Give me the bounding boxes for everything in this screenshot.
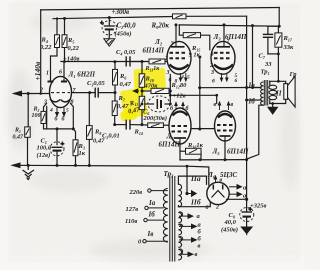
wire: C4 left	[125, 61, 127, 63]
svg-text:100,0: 100,0	[37, 145, 52, 152]
capacitor C8 electrolytic	[240, 207, 254, 222]
svg-text:5Ц3С: 5Ц3С	[220, 171, 237, 179]
svg-text:R920к: R920к	[151, 22, 170, 30]
wire: R3 top leg	[73, 129, 75, 140]
heater winding v	[178, 250, 181, 260]
tube L3 envelope	[211, 41, 235, 74]
svg-text:100: 100	[32, 113, 41, 119]
transformer Tr2 primary winding	[163, 189, 167, 243]
svg-text:С4 0,05: С4 0,05	[116, 49, 136, 56]
wire: R1 leg	[27, 94, 29, 127]
capacitor C6 electrolytic	[148, 96, 170, 112]
resistor R13	[149, 59, 165, 64]
wire: feedback top line	[41, 8, 280, 10]
svg-text:+300в: +300в	[112, 8, 130, 16]
wire: feedback right vertical	[278, 8, 280, 27]
svg-text:6П14П: 6П14П	[227, 148, 249, 156]
resistor R8	[87, 126, 93, 140]
wire: L6 filament a output 1	[229, 185, 242, 189]
resistor R10	[139, 74, 145, 88]
tube L2 internals	[170, 42, 189, 69]
svg-text:в: в	[220, 178, 223, 184]
svg-text:Iб: Iб	[248, 98, 256, 106]
tube L4 heater arrows up	[175, 103, 184, 111]
wire: secondary loop bottom	[270, 99, 286, 103]
highlighter mark over R10	[133, 68, 166, 91]
wire: R16 left pin	[180, 150, 186, 152]
wire: speaker ground stub	[272, 104, 274, 108]
wire: C7 top stub	[267, 26, 269, 34]
wire: L5 cathode drop	[224, 141, 226, 160]
wire: secondary left top stub	[269, 81, 271, 85]
wire heater a2 with arrow	[178, 224, 196, 228]
wire: feedback tap to speaker line	[277, 54, 279, 81]
wire: R4 bottom to anode pin 1	[51, 48, 58, 79]
svg-text:II: II	[275, 90, 282, 98]
svg-text:0,47: 0,47	[13, 135, 25, 141]
tube L5 heater arrows up	[218, 102, 229, 110]
resistor R1	[25, 127, 31, 137]
ground symbol under C2	[104, 39, 115, 46]
transformer Tr1 primary Ia winding	[261, 82, 264, 93]
svg-text:6: 6	[59, 70, 62, 76]
svg-text:+325в: +325в	[250, 203, 266, 210]
svg-text:0,22: 0,22	[40, 44, 52, 51]
primary tap 127v	[145, 206, 164, 209]
capacitor C4	[126, 56, 130, 66]
svg-text:6: 6	[206, 205, 209, 211]
svg-text:4: 4	[49, 108, 53, 114]
wire: C3 to R6/R7 node	[98, 92, 115, 94]
wire: rail from R9 to right B+ drop	[186, 15, 247, 17]
resistor R3	[73, 140, 78, 156]
wire: R10 top leg	[141, 62, 143, 74]
input arrow left	[14, 91, 22, 96]
wire: feedback left vertical	[40, 10, 42, 94]
svg-text:R131к: R131к	[145, 66, 161, 72]
wire: +12v cathode line	[170, 94, 216, 96]
resistor R9	[173, 14, 187, 19]
wire: C8 top stub	[246, 199, 248, 211]
resistor R7	[112, 101, 117, 116]
wire: anode line +140v	[61, 61, 142, 63]
wire: L2 cathode drop	[169, 75, 171, 105]
svg-text:33к: 33к	[283, 44, 295, 51]
primary tap 220v	[148, 189, 168, 192]
transformer Tr1 core	[264, 80, 267, 106]
rectifier L6 internals	[212, 185, 225, 198]
svg-text:в: в	[195, 251, 198, 258]
wire: R6/R7 node vertical	[114, 85, 116, 101]
resistor R14	[148, 123, 164, 128]
wire: L2 anode stem	[175, 25, 177, 47]
tube L4 envelope	[169, 108, 191, 144]
wire: C6 left leg	[142, 103, 154, 105]
wire: ground rail to HV center tap	[186, 166, 188, 193]
resistor R11	[139, 96, 145, 109]
resistor R2	[41, 111, 46, 123]
wire: C7/R17 top tie	[268, 25, 279, 27]
wire: anode line left corner to R15	[179, 25, 183, 35]
wire: C1 bottom leg	[56, 152, 58, 166]
wire: C7/R17 bottom tie	[268, 53, 279, 55]
wire: HV bottom to rectifier anode	[178, 201, 210, 207]
svg-text:Iб: Iб	[148, 211, 156, 219]
wire: C7 bottom stub	[267, 37, 269, 54]
svg-text:IIа: IIа	[190, 174, 201, 183]
wire: L4 cathode drop	[179, 144, 181, 160]
svg-text:8: 8	[175, 79, 178, 85]
svg-text:+140в: +140в	[63, 56, 79, 63]
svg-text:6П14П: 6П14П	[143, 47, 165, 55]
svg-text:6: 6	[169, 78, 172, 84]
wire: rail extension to rectifier anode	[187, 166, 209, 185]
primary tap 0	[143, 240, 168, 243]
ground symbol below rail	[23, 165, 35, 179]
wire: C1 top leg	[56, 129, 58, 145]
svg-text:2: 2	[209, 63, 213, 69]
transformer Tr2 HV secondary IIa/IIb	[178, 184, 181, 207]
tube L3 internals	[214, 42, 233, 69]
capacitor C5	[126, 120, 130, 130]
svg-text:в: в	[198, 243, 201, 250]
wire: R4 top leg	[56, 19, 58, 35]
svg-text:2: 2	[215, 205, 219, 211]
svg-text:1к: 1к	[79, 150, 86, 157]
wire: heater box bottom	[47, 128, 74, 130]
svg-text:Iв: Iв	[147, 230, 154, 238]
tube L1 6N2P envelope	[50, 76, 72, 107]
svg-text:3: 3	[210, 70, 214, 76]
wire: anode line y25	[179, 25, 279, 26]
wire: C5 to R14 line	[130, 124, 148, 126]
wire: R15 right to L3 screen	[201, 35, 210, 50]
ground symbol under Tr1	[268, 107, 278, 114]
wire: Ib entry	[247, 99, 261, 101]
svg-text:+: +	[61, 141, 65, 148]
tube L5 envelope	[215, 111, 236, 141]
svg-text:в: в	[231, 102, 234, 108]
resistor R5	[62, 35, 67, 48]
tube L1 internals: grid dashes	[51, 92, 70, 94]
wire: drop to L5 heater	[216, 95, 218, 103]
svg-text:3: 3	[43, 100, 47, 106]
wire: L6 filament a output 2	[229, 192, 242, 196]
wire heater v with arrow	[178, 249, 192, 256]
svg-text:220в: 220в	[129, 189, 143, 196]
continuation arrow left of R12	[133, 89, 139, 93]
wire heater b with arrow	[178, 236, 196, 242]
wire: +300v rail	[53, 17, 173, 19]
highlighter mark small below R11	[120, 109, 137, 121]
svg-text:6: 6	[235, 78, 238, 84]
wire: R2 bottom	[44, 124, 47, 129]
wire: R7 bottom leg	[114, 116, 116, 125]
wire heater a with arrow	[178, 212, 192, 218]
svg-text:IIб: IIб	[190, 198, 201, 207]
capacitor C2 electrolytic	[100, 21, 117, 36]
svg-text:40,0: 40,0	[224, 219, 237, 226]
ground rail left arrow	[12, 163, 20, 168]
highlighter mark over R11	[120, 87, 148, 119]
svg-text:+12в: +12в	[173, 93, 186, 100]
heater winding b1	[178, 225, 181, 235]
resistor R12	[151, 88, 169, 93]
rectifier L6 heater arrow top	[214, 176, 216, 183]
wire: R8 upper leg	[88, 93, 90, 126]
wire: R17 bottom stub	[277, 47, 279, 54]
wire: B+ vertical right side	[246, 16, 248, 199]
svg-text:5: 5	[66, 108, 69, 114]
wire: R1 to ground rail	[27, 137, 29, 165]
wire: C2 drop	[108, 18, 110, 26]
wire: R12 left leg	[142, 90, 151, 92]
tube L1 heater arrows b b	[56, 108, 66, 116]
wire: R16 right pin down	[200, 151, 202, 160]
wire: R8 lower leg	[88, 139, 90, 165]
wire: C8 bottom stub	[246, 217, 248, 227]
wire: R12 right leg	[169, 90, 170, 92]
svg-text:200(30в): 200(30в)	[143, 115, 167, 122]
svg-text:1: 1	[46, 71, 49, 77]
wire: heater box right / pin8	[71, 104, 74, 129]
tube L1 internals: anode 1	[48, 79, 54, 82]
svg-text:(12в): (12в)	[37, 152, 51, 159]
wire: C6 right leg	[165, 103, 170, 105]
capacitor C3	[95, 88, 98, 98]
svg-text:(450в): (450в)	[115, 31, 132, 38]
wire: R17 top stub	[277, 26, 279, 33]
wire: secondary left bottom stub	[269, 100, 271, 104]
wire: cathode wire y88 to transformer	[199, 87, 260, 89]
svg-text:4: 4	[180, 75, 184, 81]
wire: R10 to R11	[141, 87, 143, 96]
svg-text:+: +	[100, 21, 104, 27]
primary tap 110v	[144, 218, 164, 221]
heater winding b2	[178, 237, 181, 247]
capacitor C7	[263, 34, 273, 37]
svg-text:2: 2	[164, 56, 168, 62]
wire: ground rail	[13, 164, 187, 167]
svg-text:3: 3	[166, 70, 170, 76]
resistor R4	[55, 35, 60, 48]
wire: R11 bottom leg	[141, 110, 143, 125]
wire: cathode line to B+	[180, 159, 247, 161]
wire: HV top to rectifier anode	[178, 176, 210, 207]
svg-text:110в: 110в	[125, 218, 137, 225]
resistor R17	[275, 33, 282, 47]
wire: cathode pin3 to R2	[44, 104, 47, 112]
svg-text:0,22: 0,22	[68, 45, 80, 52]
wire: Tr1 primary bottom exit	[247, 105, 263, 159]
svg-text:С50,01: С50,01	[102, 133, 120, 140]
svg-text:6П14П: 6П14П	[159, 141, 181, 149]
svg-text:Iа: Iа	[148, 199, 156, 207]
transformer Tr1 primary Ib winding	[261, 94, 264, 105]
svg-text:б: б	[212, 78, 215, 85]
svg-text:С240,0: С240,0	[117, 22, 137, 30]
transformer Tr1 secondary II winding loops	[269, 85, 277, 99]
rectifier tube L6 envelope	[207, 182, 229, 204]
wire: secondary loop top	[270, 81, 286, 83]
transformer Tr2 core	[170, 176, 175, 262]
tube L3 heater arrows	[220, 73, 228, 81]
wire: heater box left	[46, 107, 48, 129]
svg-text:2: 2	[39, 88, 43, 94]
tube L2 envelope	[167, 41, 191, 74]
wire: Ia entry stub	[253, 87, 262, 89]
svg-text:0,47: 0,47	[120, 81, 132, 88]
wire: R14 to L4 grid	[163, 124, 169, 126]
wire: R5 bottom to line	[64, 48, 66, 62]
resistor R15	[183, 33, 200, 38]
ground symbol under C8	[241, 227, 252, 235]
svg-text:470к: 470к	[144, 83, 159, 90]
svg-text:Iа: Iа	[248, 82, 256, 90]
tube L2 heater arrows	[179, 73, 187, 81]
resistor R16	[186, 148, 202, 154]
svg-text:9: 9	[211, 52, 214, 58]
wire: R6 top leg	[114, 62, 116, 70]
wire: R3 bottom leg	[75, 156, 77, 166]
wire: anode pin 6 stem	[63, 62, 65, 79]
speaker Gr	[284, 76, 295, 107]
resistor R6	[113, 69, 118, 85]
HV center tap arrow	[187, 191, 196, 197]
svg-text:С30,05: С30,05	[87, 80, 105, 87]
svg-text:9 1к: 9 1к	[189, 52, 201, 59]
svg-text:127в: 127в	[126, 206, 139, 213]
svg-text:Гр: Гр	[289, 71, 298, 78]
svg-text:Л1 6Н2П: Л1 6Н2П	[68, 71, 96, 79]
tube L1 internals: anode 2	[61, 79, 67, 82]
wire: L6 cathode to +325v	[227, 199, 247, 227]
tube L5 internals	[217, 114, 233, 141]
wire: C2 to ground	[108, 30, 110, 39]
svg-text:(450в): (450в)	[221, 227, 238, 234]
wire: L5 grid line	[191, 128, 217, 130]
svg-text:в: в	[214, 102, 217, 108]
heater winding a	[178, 212, 181, 222]
wire: R13 to L2 grid	[165, 61, 168, 63]
wire: input grid line	[15, 93, 51, 95]
svg-text:+140в: +140в	[33, 61, 42, 81]
wire: L3 anode stem	[223, 25, 225, 47]
tube L4 internals	[172, 112, 188, 144]
wire: Ia feed vertical	[252, 26, 254, 88]
wire: grid bus between tubes	[199, 57, 201, 129]
wire: C5 line	[115, 124, 126, 126]
wire: grid bus C4 to R13	[130, 61, 149, 63]
svg-text:8: 8	[71, 100, 74, 106]
svg-text:5: 5	[187, 75, 190, 81]
wire: C3 line from tube pin 7	[72, 92, 95, 94]
capacitor C1 electrolytic	[50, 141, 65, 156]
wire: R5 top leg	[64, 19, 66, 35]
svg-text:33: 33	[264, 61, 272, 68]
tube L1 internals: cathode arcs	[50, 99, 71, 102]
